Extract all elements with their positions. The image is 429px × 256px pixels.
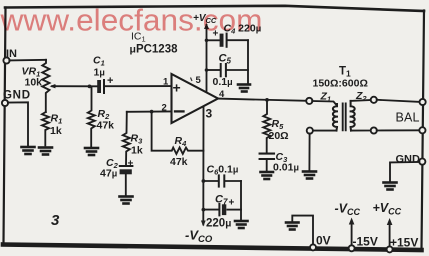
- terminal -15V on bus: [349, 245, 355, 251]
- svg-text:20Ω: 20Ω: [269, 130, 289, 142]
- capacitor C6 (0.1u): [203, 175, 241, 186]
- wire GND terminal to ground: [8, 102, 28, 145]
- svg-text:+: +: [173, 80, 181, 96]
- wire op-amp pin3 down to -Vcc: [202, 107, 204, 225]
- transformer T1 primary winding Z1: [333, 104, 337, 131]
- wire C4/C5 to ground: [247, 40, 249, 83]
- ground (T1 primary): [303, 172, 316, 179]
- terminal: output jack upper: [306, 98, 312, 104]
- svg-text:GND: GND: [396, 154, 421, 166]
- capacitor C5 (0.1u): [207, 64, 249, 76]
- svg-text:1k: 1k: [50, 125, 62, 137]
- wire op-amp output pin4: [218, 99, 307, 101]
- wire +Vcc rail to op-amp pin5: [206, 25, 208, 92]
- terminal GND (right frame): [419, 159, 425, 165]
- wire to BAL- frame terminal: [377, 129, 420, 131]
- wire out terminal to T1 primary top: [312, 101, 336, 105]
- op-amp minus sign: [175, 110, 184, 112]
- wire: top frame rail: [5, 6, 424, 11]
- svg-text:-15V: -15V: [353, 235, 378, 249]
- ground (C3): [261, 172, 274, 179]
- capacitor C7 (electrolytic 220u): [203, 204, 241, 215]
- svg-text:47μ: 47μ: [100, 168, 117, 180]
- node: R2 junction on input wire: [88, 85, 92, 89]
- wire: right frame edge: [422, 11, 425, 250]
- svg-text:GND: GND: [3, 90, 30, 102]
- svg-text:IN: IN: [6, 48, 17, 60]
- wire T1 secondary bottom: [351, 130, 371, 132]
- svg-text:-VCO: -VCO: [185, 228, 213, 246]
- transformer T1 secondary winding Z2: [351, 101, 355, 131]
- wire jack lower to ground: [308, 134, 310, 171]
- ground (input gnd): [22, 147, 35, 154]
- terminal +15V on bus: [387, 246, 393, 252]
- terminal secondary upper: [371, 97, 377, 103]
- resistor R2: [88, 86, 95, 146]
- ground (C2): [120, 197, 133, 204]
- svg-text:150Ω:600Ω: 150Ω:600Ω: [313, 78, 368, 90]
- wire -Vcc arrow: [351, 221, 353, 245]
- wire GND terminal to ground: [390, 162, 419, 182]
- wire wiper to C1: [54, 85, 97, 87]
- svg-text:1μ: 1μ: [94, 67, 105, 79]
- svg-text:C60.1μ: C60.1μ: [207, 164, 239, 177]
- svg-text:220μ: 220μ: [206, 218, 231, 230]
- svg-text:3: 3: [206, 107, 213, 121]
- node C5 tap: [205, 68, 209, 72]
- svg-text:www.elecfans.com: www.elecfans.com: [0, 3, 262, 38]
- resistor R5 (20 ohm): [263, 100, 270, 152]
- svg-text:10k: 10k: [25, 77, 43, 89]
- svg-text:+: +: [107, 75, 113, 87]
- ground (R2): [85, 148, 98, 155]
- svg-text:Z2: Z2: [355, 90, 367, 103]
- ground (C4/C5): [238, 85, 250, 92]
- svg-text:R4: R4: [175, 135, 188, 148]
- svg-text:0.01μ: 0.01μ: [273, 162, 299, 174]
- svg-text:2: 2: [162, 103, 167, 114]
- wire T1 secondary top to BAL+: [351, 99, 371, 102]
- svg-text:5: 5: [196, 75, 202, 86]
- arrowhead pin3 -Vcc: [201, 221, 206, 227]
- ground (C6/C7): [235, 221, 248, 228]
- node R5 tap: [265, 98, 269, 102]
- ground (VR1/R1): [39, 148, 52, 155]
- terminal secondary lower: [371, 127, 377, 133]
- ground (right GND): [384, 183, 397, 190]
- svg-text:+15V: +15V: [390, 236, 418, 250]
- wire to BAL+ frame terminal: [377, 100, 420, 102]
- node C6 tap: [202, 179, 206, 183]
- wire +Vcc arrow: [389, 222, 391, 247]
- terminal: output jack lower: [307, 128, 313, 134]
- terminal BAL+: [420, 99, 426, 105]
- svg-text:C5: C5: [219, 53, 232, 66]
- arrowhead -Vcc: [349, 218, 355, 225]
- terminal 0V on bus: [310, 244, 316, 250]
- node C4 tap: [205, 39, 209, 43]
- capacitor C3 (0.01u): [260, 154, 274, 172]
- resistor R3: [123, 112, 130, 165]
- svg-text:0V: 0V: [316, 234, 331, 248]
- svg-text:47k: 47k: [97, 120, 115, 132]
- arrowhead +Vcc: [204, 23, 209, 29]
- svg-text:BAL: BAL: [396, 111, 420, 125]
- svg-text:C7: C7: [215, 194, 228, 207]
- terminal GND (input): [2, 100, 8, 106]
- wire C6/C7 to ground: [240, 181, 242, 220]
- svg-text:-VCC: -VCC: [335, 202, 361, 218]
- svg-text:0.1μ: 0.1μ: [213, 76, 233, 88]
- wire op-amp pin2: [127, 110, 172, 112]
- VR1 wiper arrow: [52, 85, 55, 87]
- resistor R4 (feedback 47k): [152, 112, 204, 154]
- op-amp IC1 triangle: [172, 74, 219, 123]
- svg-text:+VCC: +VCC: [373, 201, 402, 217]
- node C7 tap: [202, 208, 206, 212]
- wire 0V stub with ground: [292, 216, 313, 245]
- wire: 0V bus (bottom frame): [3, 245, 422, 251]
- svg-text:+: +: [229, 198, 235, 209]
- terminal IN: [3, 57, 9, 63]
- ground (0V stub): [286, 223, 299, 230]
- node: feedback tap on pin2 wire: [150, 110, 154, 114]
- arrowhead +Vcc: [387, 218, 393, 225]
- capacitor C2 (electrolytic 47u): [120, 166, 133, 195]
- svg-text:3: 3: [51, 212, 60, 229]
- terminal BAL-: [419, 127, 425, 133]
- svg-text:R1: R1: [51, 113, 63, 126]
- svg-text:Z1: Z1: [320, 91, 332, 104]
- svg-text:47k: 47k: [170, 156, 188, 168]
- wire T1 primary bottom to jack lower: [313, 130, 336, 132]
- svg-text:+: +: [128, 159, 134, 170]
- svg-text:μPC1238: μPC1238: [130, 44, 179, 56]
- wire IN to VR1 top: [9, 59, 46, 62]
- wire C1 to op-amp pin1: [105, 85, 171, 87]
- capacitor C1 (electrolytic 1u): [97, 80, 104, 93]
- capacitor C4 (electrolytic 220u): [207, 34, 249, 47]
- potentiometer VR1: [42, 60, 49, 112]
- wire: left frame edge: [4, 8, 6, 244]
- transformer T1 core: [343, 104, 346, 131]
- svg-text:4: 4: [219, 89, 225, 100]
- resistor R1: [42, 112, 49, 146]
- svg-text:1: 1: [163, 77, 169, 88]
- svg-text:1k: 1k: [131, 145, 143, 157]
